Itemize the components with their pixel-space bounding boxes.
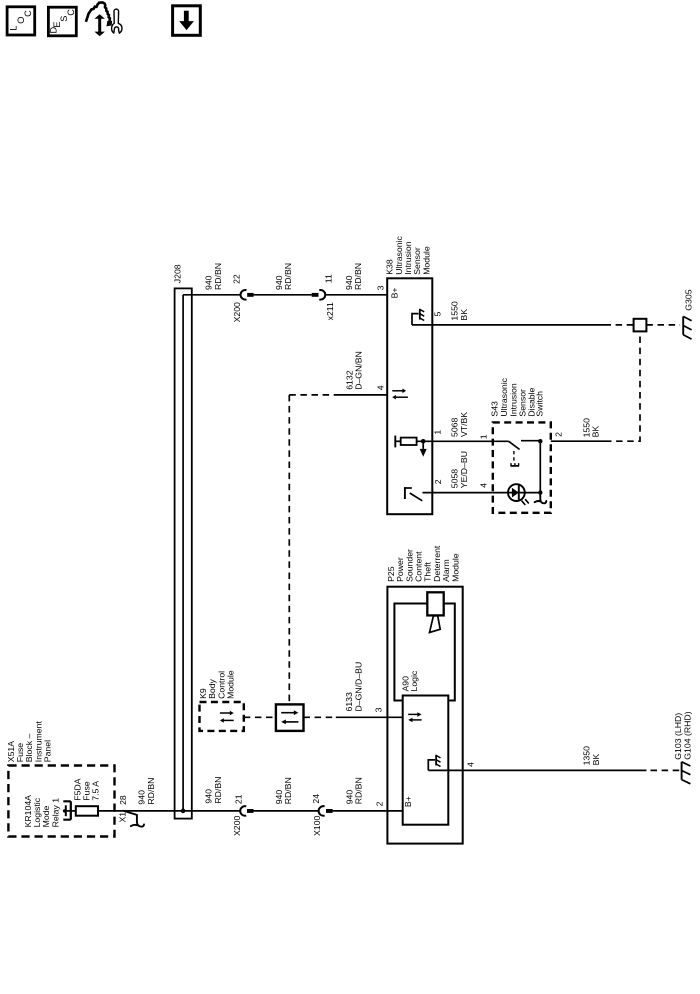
- K38 bidirectional signal symbol (pin 4): [392, 389, 408, 400]
- DESC icon frame: [48, 7, 76, 36]
- svg-text:24: 24: [311, 794, 321, 804]
- switch detent symbol: [510, 465, 519, 467]
- K38 internal sensor resistor (pin 1): [395, 436, 493, 457]
- svg-text:1: 1: [433, 430, 443, 435]
- relay KR104A Logistic Mode Relay 1 contact: [23, 795, 76, 828]
- connector X100 male half: [326, 809, 333, 813]
- svg-text:4: 4: [375, 385, 385, 390]
- X1 terminal hook: [124, 811, 144, 827]
- chassis ground symbol: [419, 309, 421, 320]
- P25 sounder section box: [394, 604, 454, 701]
- A90 bidirectional signal symbol (pin 3): [408, 712, 421, 722]
- svg-text:X200: X200: [232, 302, 242, 322]
- LED diode triangle: [512, 488, 519, 498]
- icon DESC box: [48, 7, 76, 36]
- P25 Power Sounder Content Theft Deterrent Alarm Module: [386, 545, 463, 843]
- svg-text:21: 21: [233, 794, 243, 804]
- svg-text:5: 5: [433, 312, 443, 317]
- S43 switch dashed housing: [493, 422, 551, 512]
- svg-text:Switch: Switch: [535, 391, 545, 417]
- svg-text:11: 11: [323, 274, 333, 283]
- ground G305: [683, 289, 693, 339]
- svg-text:B+: B+: [390, 288, 400, 299]
- part outline (cloud): [86, 2, 111, 24]
- dashed wire to G305: [646, 324, 680, 326]
- wrench: [112, 9, 122, 33]
- S43 clip hook at junction: [535, 495, 547, 504]
- K9 Body Control Module (reference, dashed): [198, 670, 244, 731]
- wire 5058 YE/D-BU from pin 2: [423, 492, 493, 494]
- svg-text:RD/BN: RD/BN: [213, 263, 223, 290]
- svg-text:BK: BK: [591, 426, 601, 438]
- fuse F5DA body: [76, 806, 98, 816]
- svg-text:Logic: Logic: [409, 670, 419, 691]
- junction dot at J208 bus: [181, 809, 186, 814]
- K38 module box: [387, 278, 432, 514]
- connector X200 female half: [240, 806, 246, 816]
- K38 switch blade: [410, 493, 423, 501]
- svg-text:Relay 1: Relay 1: [50, 798, 60, 828]
- dashed wire 1550 BK: [605, 324, 634, 326]
- svg-text:S43: S43: [489, 401, 499, 417]
- LED cathode bar: [518, 485, 520, 500]
- svg-text:3: 3: [374, 707, 384, 712]
- svg-text:X1: X1: [117, 812, 127, 823]
- wire 940 RD/BN (X100 to A90 B+): [333, 810, 403, 812]
- A90 internal ground stub: [428, 760, 435, 771]
- K38 internal ground (pin 5): [412, 309, 424, 325]
- dashed wire to G103/G104: [651, 769, 681, 771]
- connector X211 pin 11: [312, 274, 335, 320]
- svg-text:RD/BN: RD/BN: [146, 778, 156, 805]
- connector X200 male half: [247, 809, 254, 813]
- S43 switch blade and contact: [493, 439, 543, 495]
- svg-text:C: C: [23, 10, 33, 17]
- X51A Fuse Block - Instrument Panel (dashed): [6, 721, 115, 837]
- svg-text:4: 4: [478, 483, 488, 488]
- svg-text:RD/BN: RD/BN: [213, 777, 223, 804]
- svg-text:J208: J208: [173, 264, 183, 283]
- sounder speaker symbol: [427, 592, 443, 632]
- svg-text:D–GN/D–BU: D–GN/D–BU: [353, 662, 363, 712]
- LOC icon frame: [7, 7, 35, 35]
- svg-text:B+: B+: [403, 796, 413, 807]
- svg-text:RD/BN: RD/BN: [283, 263, 293, 290]
- svg-text:G104 (RHD): G104 (RHD): [682, 711, 692, 759]
- down arrow: [184, 11, 189, 22]
- J208 outline: [175, 288, 192, 818]
- S43 internal wire: [539, 441, 541, 492]
- K38 Ultrasonic Intrusion Sensor Module: [385, 236, 433, 515]
- S43 LED indicator on pin 4 wire: [493, 484, 538, 505]
- double-headed arrow: [98, 18, 101, 32]
- K9 BCM dashed box: [200, 702, 244, 731]
- svg-text:X100: X100: [312, 816, 322, 836]
- chassis ground symbol: [435, 755, 437, 766]
- switch linkage (dashed): [513, 451, 515, 463]
- wire 6132 D-GN/BN (dashed from BCM branch, solid to K38 pin4): [289, 394, 334, 396]
- dashed wire K9 to splice box: [244, 716, 276, 718]
- icon LOC box: [7, 7, 35, 35]
- svg-text:Module: Module: [421, 246, 431, 275]
- ground G103 (LHD) / G104 (RHD): [673, 711, 692, 783]
- K38 internal ground stub: [412, 314, 419, 325]
- connector X100 pin 24: [311, 794, 333, 836]
- ground G305 chassis symbol: [682, 316, 684, 334]
- connector X211 male half: [312, 293, 319, 297]
- svg-text:1: 1: [478, 434, 488, 439]
- fuse F5DA 7.5 A: [72, 778, 100, 815]
- svg-text:Module: Module: [450, 553, 460, 582]
- svg-text:RD/BN: RD/BN: [354, 777, 364, 804]
- LED emission strokes: [522, 499, 529, 505]
- svg-text:YE/D–BU: YE/D–BU: [459, 451, 469, 488]
- X51A fuse block dashed box: [8, 766, 114, 837]
- A90 logic box: [403, 696, 449, 825]
- S43 fixed contact wire: [521, 440, 540, 442]
- svg-text:BK: BK: [591, 754, 601, 766]
- junction dot: [538, 439, 542, 443]
- wire 5068 VT/BK from pin 1: [417, 440, 493, 442]
- transducer arrow: [422, 441, 424, 449]
- K38 sensor element T-bar: [394, 436, 396, 448]
- bidirectional data symbol K38: [392, 390, 403, 392]
- J208 internal bus wire: [182, 295, 184, 811]
- svg-text:L: L: [9, 25, 19, 30]
- connector X100 female half: [319, 806, 325, 816]
- LED circle: [508, 484, 525, 501]
- svg-text:X200: X200: [232, 816, 242, 836]
- dashed wire 1550 BK up to splice: [605, 331, 640, 441]
- wire 1550 BK from S43 pin 2: [551, 440, 605, 442]
- svg-text:C: C: [66, 9, 76, 16]
- svg-text:3: 3: [376, 285, 386, 290]
- bidirectional data symbol splice: [281, 712, 294, 714]
- junction dot: [538, 490, 542, 494]
- wire into S43 pin 4: [493, 492, 538, 494]
- ground G103/G104 chassis symbol: [681, 762, 683, 780]
- bidirectional data symbol K9: [220, 712, 230, 714]
- splice/gateway box on 6132/6133: [276, 704, 304, 731]
- relay KR104A contact bracket: [63, 801, 71, 819]
- wire 6133 D-GN/D-BU (dashed then solid to A90 pin3): [304, 716, 336, 718]
- svg-text:G305: G305: [683, 289, 693, 310]
- connector X200 female half: [241, 290, 247, 300]
- dashed branch down to splice at BCM: [288, 395, 290, 705]
- svg-text:RD/BN: RD/BN: [353, 263, 363, 290]
- svg-text:2: 2: [375, 801, 385, 806]
- connector X200 male half: [247, 293, 253, 297]
- svg-text:x211: x211: [325, 302, 335, 320]
- svg-text:22: 22: [232, 274, 242, 284]
- connector X211 female half: [319, 290, 325, 300]
- wire 940 RD/BN (J208 to X200-22): [183, 294, 240, 296]
- relay contact bar: [65, 805, 67, 816]
- sounder speaker body: [427, 592, 443, 615]
- wire into S43 pin 1: [493, 440, 509, 442]
- wire 940 RD/BN (fuse F5DA to X200-21): [98, 810, 240, 812]
- svg-text:28: 28: [118, 795, 128, 805]
- A90 internal ground (pin 4): [428, 755, 440, 771]
- K38 internal switch contact: [404, 487, 406, 499]
- down-arrow icon frame: [173, 6, 201, 36]
- S43 switch blade: [509, 441, 520, 449]
- wire relay to fuse: [66, 810, 76, 812]
- bidirectional data symbol A90: [408, 713, 418, 715]
- splice box on 1550 BK: [634, 319, 647, 332]
- svg-text:4: 4: [466, 762, 476, 767]
- relay contact dot: [63, 809, 66, 812]
- wire 1350 BK from pin 4: [428, 769, 646, 771]
- svg-text:7.5 A: 7.5 A: [91, 781, 101, 801]
- P25 module box: [387, 587, 462, 844]
- connector X200 pin 21: [232, 794, 254, 836]
- wire 1550 BK from pin 5: [412, 324, 605, 326]
- svg-text:RD/BN: RD/BN: [283, 777, 293, 804]
- icon down-arrow box: [173, 6, 201, 36]
- sounder speaker horn: [430, 616, 441, 633]
- svg-text:2: 2: [554, 432, 564, 437]
- splice/gateway box: [276, 704, 304, 731]
- svg-text:BK: BK: [459, 309, 469, 321]
- svg-text:D–GN/BN: D–GN/BN: [354, 351, 364, 390]
- svg-text:Module: Module: [226, 670, 236, 699]
- svg-text:2: 2: [433, 479, 443, 484]
- A90 Logic box: [400, 670, 448, 825]
- connector X200 pin 22: [232, 274, 254, 322]
- K38 internal switch (pin 2): [405, 487, 493, 501]
- resistor element: [401, 438, 417, 445]
- wire 940 RD/BN X200 to X100: [254, 810, 319, 812]
- icon remove-install (cloud outline, double arrow, wrench): [86, 2, 122, 36]
- svg-text:Panel: Panel: [43, 740, 53, 762]
- svg-text:VT/BK: VT/BK: [459, 412, 469, 437]
- S43 Ultrasonic Intrusion Sensor Disable Switch: [489, 377, 550, 512]
- junction dot: [421, 439, 426, 444]
- wire 940 RD/BN (X211 to K38 pin3): [326, 294, 387, 296]
- wire 940 RD/BN (X200 to X211): [254, 294, 312, 296]
- junction block J208: [173, 264, 192, 818]
